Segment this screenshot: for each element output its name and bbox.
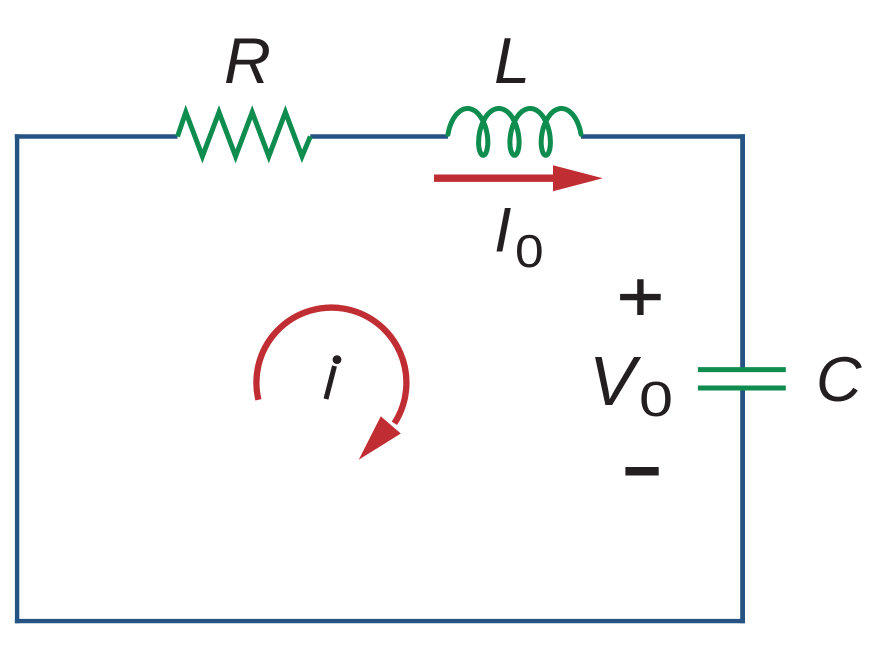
capacitor C top plate: [698, 367, 786, 372]
label i: [333, 355, 342, 364]
minus sign: [625, 467, 658, 476]
svg-text:0: 0: [639, 372, 673, 427]
wire: top-left segment (left corner to resistor): [15, 134, 178, 139]
wire: bottom side: [15, 619, 745, 623]
wire: top-right segment (inductor to right corner): [581, 134, 745, 139]
inductor L coil: [448, 109, 581, 156]
svg-text:0: 0: [515, 226, 544, 277]
current arrow I0 head: [553, 165, 603, 191]
capacitor C bottom plate: [698, 386, 786, 391]
svg-text:C: C: [816, 345, 862, 415]
svg-text:V: V: [589, 342, 642, 420]
loop current arrow arc: [256, 308, 406, 424]
svg-text:I: I: [494, 196, 512, 266]
plus sign: [620, 279, 661, 315]
loop current arrowhead: [359, 416, 401, 460]
wire: right side lower segment (capacitor bottom plate to corner): [740, 386, 745, 623]
resistor R zigzag: [178, 112, 311, 156]
svg-text:L: L: [494, 24, 530, 97]
wire: left side: [15, 134, 19, 623]
current arrow I0 shaft: [434, 174, 556, 181]
wire: top-middle segment (resistor to inductor): [310, 134, 448, 139]
wire: right side upper segment (corner to capacitor top plate): [740, 134, 745, 371]
svg-text:R: R: [224, 24, 271, 97]
